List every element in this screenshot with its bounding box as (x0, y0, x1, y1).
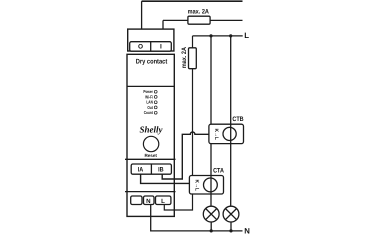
svg-text:CTA: CTA (213, 168, 224, 175)
wire L supply line (193, 35, 243, 37)
terminal blank cell (131, 196, 142, 205)
wire vertical fused L drop (164, 36, 192, 210)
junction on L line load B (229, 34, 232, 37)
svg-text:Shelly: Shelly (139, 125, 163, 135)
wire lamp 2 to N bus (230, 222, 232, 231)
svg-text:K→L: K→L (213, 128, 219, 140)
divider above IA IB (125, 158, 176, 160)
Shelly device main body (127, 54, 174, 216)
wire from terminal N down to N bus (151, 205, 243, 231)
svg-text:L: L (244, 31, 249, 40)
wire from terminal I up (162, 20, 164, 29)
Reset button (143, 136, 158, 151)
svg-text:IA: IA (138, 167, 144, 174)
svg-text:IB: IB (158, 167, 164, 174)
svg-text:L: L (161, 198, 165, 205)
fuse F2 max. 2A (vertical) (189, 48, 197, 69)
current transformer CTB (209, 124, 244, 143)
wire from terminal IA to CTA (141, 174, 190, 183)
current transformer CTA (189, 176, 223, 195)
svg-text:I: I (160, 44, 162, 51)
svg-text:N: N (244, 226, 250, 234)
svg-text:K→L: K→L (194, 179, 200, 191)
svg-text:Dry contact: Dry contact (136, 59, 168, 66)
wire lamp 1 to N bus (210, 222, 212, 231)
svg-text:Reset: Reset (144, 153, 157, 158)
svg-text:Wi-Fi: Wi-Fi (145, 94, 153, 99)
wire from terminal O up (141, 1, 143, 29)
wire load A from L line down to lamp 1 (210, 36, 212, 206)
svg-text:Out: Out (147, 105, 153, 110)
svg-text:max. 2A: max. 2A (188, 9, 210, 16)
lamp 2 (223, 206, 239, 222)
svg-text:CTB: CTB (232, 116, 244, 123)
fuse F1 max. 2A (horizontal) (188, 16, 210, 24)
svg-text:N: N (146, 198, 151, 205)
wire top line from O (142, 0, 243, 2)
terminal block IA IB (131, 164, 171, 174)
divider above N L terminals (125, 191, 176, 193)
divider below Dry contact (127, 85, 174, 87)
svg-text:O: O (138, 44, 143, 51)
terminal block O I (130, 42, 172, 52)
terminal N (144, 196, 155, 205)
junction lamp 2 on N bus (229, 229, 232, 232)
lamp 1 (203, 206, 219, 222)
svg-text:Count: Count (144, 110, 154, 115)
wire from terminal IB to CTB with hop over fused drop (162, 132, 209, 179)
junction on L line load A (209, 34, 212, 37)
terminal L (156, 196, 171, 205)
wire load B from L line down to lamp 2 (230, 36, 232, 206)
svg-text:max. 2A: max. 2A (181, 47, 188, 68)
wire line from I to right (163, 19, 243, 21)
junction lamp 1 on N bus (210, 229, 213, 232)
Shelly device top section outline (128, 29, 174, 51)
